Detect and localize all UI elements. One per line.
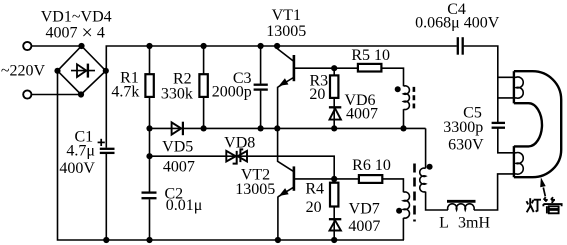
svg-text:0.068μ 400V: 0.068μ 400V: [415, 14, 500, 31]
svg-text:R5 10: R5 10: [351, 47, 390, 64]
svg-text:4007: 4007: [348, 218, 380, 235]
svg-text:4.7μ: 4.7μ: [66, 142, 95, 159]
svg-text:400V: 400V: [59, 160, 95, 177]
svg-text:3mH: 3mH: [458, 215, 490, 232]
svg-text:VT1: VT1: [272, 7, 301, 24]
svg-text:4007 × 4: 4007 × 4: [46, 22, 105, 44]
svg-text:330k: 330k: [161, 86, 193, 103]
svg-text:630V: 630V: [448, 136, 484, 153]
svg-text:4.7k: 4.7k: [111, 84, 139, 101]
svg-text:13005: 13005: [235, 181, 275, 198]
svg-text:4007: 4007: [163, 159, 195, 176]
svg-text:VD5: VD5: [162, 139, 193, 156]
svg-text:0.01μ: 0.01μ: [166, 197, 203, 214]
svg-text:VD8: VD8: [224, 135, 255, 152]
svg-text:20: 20: [309, 86, 325, 103]
svg-text:13005: 13005: [266, 23, 306, 40]
svg-text:20: 20: [306, 199, 322, 216]
svg-text:R6 10: R6 10: [352, 157, 391, 174]
svg-text:VD7: VD7: [349, 201, 380, 218]
svg-text:2000p: 2000p: [212, 83, 252, 100]
svg-text:L: L: [439, 215, 449, 232]
svg-text:R4: R4: [305, 181, 324, 198]
svg-text:~220V: ~220V: [1, 63, 46, 80]
svg-text:4007: 4007: [346, 106, 378, 123]
svg-text:VD1~VD4: VD1~VD4: [41, 8, 112, 25]
svg-text:3300p: 3300p: [443, 119, 483, 136]
